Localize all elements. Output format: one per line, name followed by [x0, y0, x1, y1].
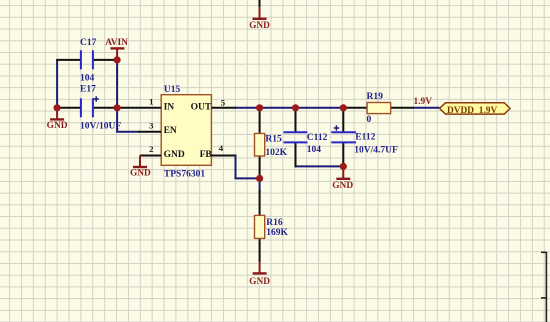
svg-text:1.9V: 1.9V: [414, 97, 433, 107]
svg-text:EN: EN: [164, 126, 177, 136]
capacitor E17 plus sign: [94, 96, 99, 101]
capacitor E112 pins: [342, 108, 344, 168]
svg-text:10V/4.7UF: 10V/4.7UF: [354, 146, 398, 156]
capacitor E112 plus sign: [334, 125, 339, 130]
svg-text:E17: E17: [80, 85, 96, 95]
pin 2 GND: [140, 155, 161, 157]
svg-text:GND: GND: [332, 181, 353, 191]
svg-text:GND: GND: [130, 169, 151, 179]
ground GND under pin2: [133, 156, 147, 168]
svg-text:R16: R16: [266, 218, 283, 228]
svg-text:TPS76301: TPS76301: [164, 169, 205, 179]
svg-text:10V/10UF: 10V/10UF: [80, 122, 121, 132]
svg-text:C112: C112: [307, 133, 328, 143]
svg-text:U15: U15: [164, 85, 181, 95]
capacitor E17 pins: [56, 107, 118, 109]
svg-text:1: 1: [149, 96, 153, 106]
capacitor E17 plates: [81, 98, 93, 117]
wire: FB down-right to R15/R16 node: [235, 156, 260, 179]
svg-text:GND: GND: [249, 21, 270, 31]
sheet border right edge: [541, 252, 546, 322]
svg-text:GND: GND: [47, 121, 68, 131]
ground GND under R16: [253, 262, 267, 274]
svg-text:FB: FB: [200, 150, 213, 160]
wire: C112 bottom to E112 bottom: [296, 165, 344, 167]
wire: EN row horizontal: [116, 131, 139, 133]
capacitor C112 plates: [284, 132, 308, 142]
capacitor C112 pins: [295, 108, 297, 168]
svg-text:GND: GND: [249, 277, 270, 287]
power port DVDD_1.9V: [440, 103, 511, 114]
capacitor C17 pins: [56, 59, 118, 61]
node: junction dots: [54, 56, 347, 182]
svg-text:OUT: OUT: [191, 102, 212, 112]
svg-text:104: 104: [307, 145, 322, 155]
svg-text:GND: GND: [164, 150, 185, 160]
op-amp U15 body (TPS76301 regulator): [161, 95, 211, 166]
svg-text:R15: R15: [265, 135, 282, 145]
power port AVIN: [110, 48, 124, 60]
pin 5 OUT: [211, 107, 236, 109]
ground GND left: [50, 108, 64, 120]
pin 4 FB: [211, 155, 235, 157]
svg-text:104: 104: [80, 73, 95, 83]
wire: top GND stub wire: [259, 0, 261, 7]
svg-text:3: 3: [149, 121, 154, 131]
wire: R19 to DVDD port: [414, 107, 440, 109]
svg-text:5: 5: [221, 97, 226, 107]
resistor R16: [259, 190, 261, 216]
svg-text:IN: IN: [164, 102, 175, 112]
svg-text:DVDD_1.9V: DVDD_1.9V: [447, 106, 497, 116]
svg-text:102K: 102K: [265, 148, 287, 158]
svg-text:2: 2: [149, 144, 154, 154]
pin 1 IN: [117, 107, 161, 109]
svg-text:R19: R19: [367, 92, 384, 102]
svg-text:E112: E112: [355, 133, 375, 143]
pin 3 EN: [138, 131, 161, 133]
svg-text:0: 0: [367, 115, 372, 125]
svg-text:169K: 169K: [266, 228, 288, 238]
capacitor C17 plates: [81, 50, 93, 69]
wire: left vertical C17/E17 to GND: [56, 60, 58, 108]
capacitor E112 plates: [331, 132, 356, 142]
wire: OUT bus to R19: [235, 107, 344, 109]
svg-text:AVIN: AVIN: [105, 38, 128, 48]
resistor R15: [259, 108, 261, 134]
svg-text:C17: C17: [80, 38, 97, 48]
ground GND top: [253, 7, 267, 18]
wire: node down to R16: [259, 178, 261, 192]
wire: AVIN vertical down to EN row: [116, 60, 118, 132]
ground GND under E112: [336, 166, 350, 178]
svg-text:4: 4: [219, 143, 224, 153]
resistor R19: [343, 107, 367, 109]
